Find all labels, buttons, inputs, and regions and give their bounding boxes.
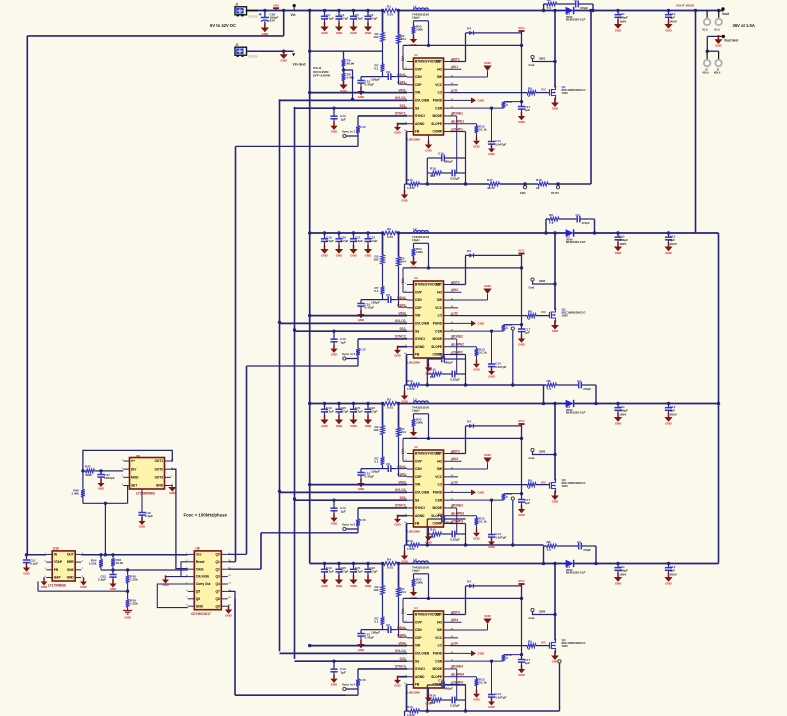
svg-text:D4: D4 <box>467 249 471 253</box>
svg-text:BST3: BST3 <box>452 449 460 453</box>
wire VIN pin to VIN bus ch2 <box>310 315 407 317</box>
resistor R4 sense filter ch3 <box>397 428 401 437</box>
svg-text:Vin: Vin <box>291 13 296 17</box>
svg-text:C8: C8 <box>386 462 390 466</box>
svg-text:4.7µF: 4.7µF <box>369 17 377 21</box>
resistor R5 UVLO top 90.9k <box>342 59 346 67</box>
svg-text:R16: R16 <box>430 528 436 532</box>
resistor R15 FB low 1.07k ch3 <box>407 544 410 546</box>
wire J2 ground <box>247 50 294 52</box>
svg-text:GND: GND <box>321 584 327 588</box>
svg-text:VIN: VIN <box>415 644 421 648</box>
capacitor C12 output ch3 <box>667 402 670 405</box>
connector lug Gnd B <box>718 51 720 59</box>
svg-text:680pF: 680pF <box>444 687 453 691</box>
svg-text:LM5122MH: LM5122MH <box>408 362 421 365</box>
wire VIN bus down <box>309 11 311 564</box>
svg-text:D4: D4 <box>467 26 471 30</box>
svg-text:PGND: PGND <box>433 98 443 102</box>
power VCC T-bar ch3 <box>521 424 523 438</box>
wire UVLO divider tap <box>344 70 353 99</box>
svg-text:AGND: AGND <box>415 345 425 349</box>
svg-text:GND: GND <box>321 253 327 257</box>
inductor L3 10uH ch3 <box>414 401 429 403</box>
resistor R1 current sense 0.01 ch1 <box>383 9 397 13</box>
svg-text:4.7µF: 4.7µF <box>355 410 363 414</box>
svg-text:LT1790BIS6: LT1790BIS6 <box>48 584 66 588</box>
svg-text:Sync in 1: Sync in 1 <box>342 129 356 133</box>
resistor R2 sense filter ch3 <box>381 426 385 435</box>
capacitor C17 VCC 1uF ch3 <box>521 438 523 499</box>
svg-text:GND: GND <box>358 95 364 99</box>
capacitor C18 comp 0.22uF ch3 <box>442 533 453 535</box>
svg-text:R4: R4 <box>387 557 391 561</box>
wire OVP feed ch1 <box>428 21 430 46</box>
svg-text:SW3: SW3 <box>539 450 546 454</box>
svg-text:4.7µF: 4.7µF <box>326 410 334 414</box>
svg-text:100k: 100k <box>416 28 423 32</box>
svg-text:GND: GND <box>280 59 286 63</box>
svg-text:0: 0 <box>506 326 508 330</box>
test point Vin Gnd <box>292 53 295 56</box>
transistor Q3 BSC160N10NS3 ch3 <box>549 482 551 488</box>
svg-text:102: 102 <box>373 35 378 39</box>
resistor R51 <box>127 570 129 576</box>
wire sync node ch4 <box>357 686 359 695</box>
svg-text:7.4: 7.4 <box>547 6 552 10</box>
wire BST pin ch4 <box>465 586 467 615</box>
resistor R8 snubber ch4 <box>543 546 545 564</box>
svg-text:4.7µF: 4.7µF <box>355 17 363 21</box>
svg-text:7.4: 7.4 <box>547 548 552 552</box>
svg-text:0.47µF: 0.47µF <box>365 475 375 479</box>
svg-text:CSP: CSP <box>415 83 422 87</box>
svg-text:Q2: Q2 <box>216 567 220 571</box>
resistor R4 sense filter ch1 <box>397 35 401 44</box>
wire sync phase 1 bus <box>235 146 237 561</box>
resistor R6 gate ch3 <box>527 483 536 487</box>
svg-text:SW1: SW1 <box>539 57 546 61</box>
wire CSN sense column ch1 <box>398 11 400 35</box>
svg-text:Q5: Q5 <box>196 590 200 594</box>
wire SYNC input ch2 <box>358 338 407 340</box>
svg-text:0.22µF: 0.22µF <box>450 538 460 542</box>
wire COMP pin ch1 <box>450 131 466 133</box>
svg-text:GND: GND <box>552 500 558 504</box>
svg-text:1.02k: 1.02k <box>130 578 138 582</box>
svg-text:0: 0 <box>506 495 508 499</box>
svg-text:0.01: 0.01 <box>387 406 393 410</box>
svg-text:10µH: 10µH <box>412 409 420 413</box>
diode D1 MURS320 ch1 <box>566 7 574 14</box>
capacitor C10 0.47uF ch1 <box>361 76 383 78</box>
wire SLOPE pin ch3 <box>450 515 477 517</box>
svg-text:470pF: 470pF <box>582 221 590 225</box>
svg-text:CSP2: CSP2 <box>397 304 406 308</box>
ground SW return pin ch4 <box>450 629 488 631</box>
wire VCC pin stub ch2 <box>450 307 458 309</box>
resistor R52 damping ch3 <box>414 413 429 415</box>
svg-text:GND: GND <box>425 148 431 152</box>
svg-text:CSP1: CSP1 <box>397 81 406 85</box>
capacitor C11 output ch3 <box>616 402 619 405</box>
svg-text:104: 104 <box>401 260 406 264</box>
wire SW node ch4 <box>554 564 556 641</box>
wire COMP pin ch3 <box>450 523 466 525</box>
svg-text:CSN2: CSN2 <box>397 296 406 300</box>
svg-text:7.4: 7.4 <box>549 221 554 225</box>
svg-text:R47: R47 <box>85 465 91 469</box>
resistor R52 damping ch2 <box>414 242 429 244</box>
resistor R8 snubber ch2 <box>545 219 547 233</box>
svg-text:L2: L2 <box>413 227 417 231</box>
capacitor C19 input bypass ch2 <box>323 231 326 234</box>
capacitor C18 comp 0.22uF ch2 <box>442 373 453 375</box>
svg-text:GND: GND <box>518 120 524 124</box>
svg-text:SS: SS <box>415 106 419 110</box>
svg-text:470pF: 470pF <box>583 548 591 552</box>
power VIN T-bar <box>275 8 277 10</box>
svg-text:L4: L4 <box>413 558 417 562</box>
diode D4 bootstrap ch1 <box>466 32 522 34</box>
svg-text:R6: R6 <box>528 479 532 483</box>
wire SYNC input ch4 <box>358 668 407 670</box>
diode D4 MURS320 ch4 <box>566 560 574 567</box>
resistor R4 sense filter ch4 <box>397 588 401 597</box>
capacitor C60 bulk 180uF <box>263 9 266 12</box>
svg-text:GND: GND <box>331 129 337 133</box>
svg-text:GND: GND <box>484 453 490 457</box>
svg-text:HO: HO <box>437 290 442 294</box>
svg-text:GND: GND <box>478 99 484 103</box>
svg-text:VCC: VCC <box>518 26 525 30</box>
wire UVLO bus <box>279 99 281 651</box>
capacitor C17 VCC 1uF ch2 <box>521 268 523 329</box>
resistor R45 sync series ch4 <box>356 679 360 686</box>
svg-text:FB: FB <box>415 522 420 526</box>
svg-text:0: 0 <box>506 656 508 660</box>
capacitor C16 comp 680pF ch1 <box>426 158 428 184</box>
capacitor C11 output ch2 <box>616 231 619 234</box>
svg-text:C8: C8 <box>386 623 390 627</box>
svg-text:R15: R15 <box>407 379 413 383</box>
wire SYNC input ch1 <box>358 115 407 117</box>
capacitor C14 0.047uF ch4 <box>491 694 493 696</box>
svg-text:GND: GND <box>336 31 342 35</box>
svg-text:1µF: 1µF <box>525 331 531 335</box>
svg-text:1µF: 1µF <box>341 341 347 345</box>
svg-text:R8: R8 <box>547 540 551 544</box>
resistor R15 FB low 1.07k ch2 <box>407 384 410 386</box>
wire OVP feed ch2 <box>428 243 430 268</box>
svg-text:R6: R6 <box>528 87 532 91</box>
svg-text:102: 102 <box>373 588 378 592</box>
resistor R7 sense filter ch2 <box>381 287 385 295</box>
svg-text:FB: FB <box>415 683 420 687</box>
svg-text:LO: LO <box>438 483 443 487</box>
svg-text:R16: R16 <box>430 167 436 171</box>
svg-text:GND: GND <box>358 648 364 652</box>
svg-text:GND: GND <box>365 253 371 257</box>
capacitor C12 output ch4 <box>667 562 670 565</box>
svg-text:CSN: CSN <box>415 628 422 632</box>
svg-text:VCC: VCC <box>541 482 546 485</box>
svg-text:HO1: HO1 <box>452 65 459 69</box>
ground FB divider ch2 <box>404 385 406 396</box>
svg-text:MODE2: MODE2 <box>452 335 464 339</box>
resistor R2 sense filter ch1 <box>381 33 385 42</box>
svg-text:LO1: LO1 <box>452 88 458 92</box>
svg-text:KLA: KLA <box>715 29 720 32</box>
test point Sync in 1 <box>343 134 346 137</box>
svg-text:845: 845 <box>430 701 435 705</box>
capacitor C13 soft-start 1uF ch2 <box>332 329 335 332</box>
svg-text:C16: C16 <box>438 152 444 156</box>
svg-text:0.01: 0.01 <box>387 566 393 570</box>
wire MODE pin ch4 <box>450 668 457 670</box>
ground counter tie <box>165 575 167 579</box>
wire CSN sense column ch4 <box>398 564 400 588</box>
capacitor C7 snubber 470pF ch1 <box>557 3 576 5</box>
wire sync phase 3 bus <box>260 533 262 569</box>
capacitor C12 output ch1 <box>667 9 670 12</box>
svg-text:Q3: Q3 <box>216 575 220 579</box>
test point OUT1 <box>556 186 559 189</box>
svg-text:Gnd: Gnd <box>529 456 535 460</box>
svg-text:GND: GND <box>488 705 494 709</box>
svg-text:0.47µF: 0.47µF <box>365 636 375 640</box>
svg-text:BST: BST <box>436 452 442 456</box>
wire FB row ch3 <box>427 544 543 546</box>
transistor Q4 BSC160N10NS3 ch4 <box>549 642 551 648</box>
svg-text:OVP: OVP <box>415 620 423 624</box>
ground exposed pad ch4 <box>428 688 430 698</box>
wire SS pin to SS bus ch3 <box>295 499 408 501</box>
svg-text:R15: R15 <box>407 539 413 543</box>
resistor R16 comp ch1 <box>432 171 442 175</box>
ground SW return pin ch2 <box>450 299 488 301</box>
svg-text:GND: GND <box>394 684 400 688</box>
capacitor C20 input bypass ch2 <box>337 231 340 234</box>
wire FB pin to divider ch1 <box>406 131 409 133</box>
svg-text:C8: C8 <box>386 293 390 297</box>
svg-text:1727010: 1727010 <box>248 56 258 59</box>
svg-text:160V: 160V <box>619 242 627 246</box>
wire sync node ch1 <box>357 133 359 146</box>
capacitor C10 0.47uF ch4 <box>361 629 383 631</box>
diode D4 bootstrap ch4 <box>466 585 522 587</box>
svg-text:R2: R2 <box>387 227 391 231</box>
capacitor C16 comp 680pF ch4 <box>426 685 428 711</box>
svg-text:PR: PR <box>54 568 59 572</box>
wire oscillator feedback loop <box>83 450 172 471</box>
svg-text:GND: GND <box>615 28 621 32</box>
test point SW ch4 <box>531 608 534 611</box>
svg-text:BST: BST <box>436 613 442 617</box>
wire oscillator supply drop <box>104 503 106 555</box>
capacitor C17 VCC 1uF ch1 <box>521 45 523 106</box>
svg-text:R6: R6 <box>528 310 532 314</box>
resistor R13 current sense filter ch4 <box>450 660 504 662</box>
resistor R3 current sense 0.01 ch3 <box>383 402 397 406</box>
svg-text:CSP: CSP <box>415 636 422 640</box>
svg-text:Carry Out: Carry Out <box>196 582 212 586</box>
ground PGND pin ch1 <box>450 99 471 101</box>
svg-text:CSP: CSP <box>415 475 422 479</box>
svg-text:SLOPE3: SLOPE3 <box>452 512 465 516</box>
wire VIN pin to VIN bus ch3 <box>310 484 407 486</box>
svg-text:SLOPE: SLOPE <box>431 122 442 126</box>
svg-text:1µF: 1µF <box>341 671 347 675</box>
wire BST pin ch3 <box>465 426 467 454</box>
svg-text:4.7µF: 4.7µF <box>340 239 348 243</box>
svg-text:C15: C15 <box>360 678 366 682</box>
svg-text:GND: GND <box>336 424 342 428</box>
svg-text:Gnd: Gnd <box>529 63 535 67</box>
svg-text:4.7µF: 4.7µF <box>326 239 334 243</box>
capacitor C5 input bypass ch1 <box>352 9 355 12</box>
svg-text:C7: C7 <box>577 540 581 544</box>
svg-text:R3: R3 <box>387 397 391 401</box>
svg-text:MURS320-CLP: MURS320-CLP <box>566 240 586 244</box>
wire SS pin to SS bus ch1 <box>295 107 408 109</box>
svg-text:GND: GND <box>98 487 104 491</box>
svg-text:4.7µF: 4.7µF <box>340 17 348 21</box>
capacitor C16 comp 680pF ch3 <box>426 519 428 545</box>
wire FB tap ch2 <box>512 330 514 385</box>
svg-text:MURS320-CLP: MURS320-CLP <box>566 410 586 414</box>
wire reference feedback <box>38 590 128 592</box>
power VCC T-bar ch1 <box>521 31 523 45</box>
capacitor C42 input bypass ch4 <box>323 562 326 565</box>
resistor R7 sense filter ch1 <box>381 64 385 72</box>
svg-text:104: 104 <box>401 430 406 434</box>
svg-text:GND: GND <box>473 697 479 701</box>
svg-text:GND: GND <box>67 576 75 580</box>
capacitor C7 snubber 470pF ch2 <box>559 218 577 220</box>
svg-text:OFF=5.8VIN: OFF=5.8VIN <box>313 74 330 78</box>
svg-text:AGND: AGND <box>415 514 425 518</box>
svg-text:2: 2 <box>528 647 530 651</box>
svg-text:VIN: VIN <box>415 91 421 95</box>
wire LO gate drive ch1 <box>450 92 527 94</box>
wire FB pin to divider ch4 <box>406 684 409 686</box>
resistor R6 gate ch1 <box>527 91 536 95</box>
resistor R47 4.22k <box>83 470 86 472</box>
svg-text:CSP4: CSP4 <box>397 634 406 638</box>
ground AGND pin ch1 <box>398 123 408 125</box>
svg-text:VIN: VIN <box>273 3 279 7</box>
test point Vout <box>721 7 724 10</box>
svg-text:KBLA: KBLA <box>703 72 710 75</box>
svg-text:UVLO/EN: UVLO/EN <box>415 651 430 655</box>
test point Sync in 4 <box>343 687 346 690</box>
svg-text:5.1: 5.1 <box>374 289 379 293</box>
svg-text:D4: D4 <box>467 579 471 583</box>
svg-text:VCC: VCC <box>435 475 442 479</box>
svg-text:100k: 100k <box>416 581 423 585</box>
svg-text:GND: GND <box>518 342 524 346</box>
resistor R15 FB low 1.07k ch1 <box>407 183 410 185</box>
svg-text:BST4: BST4 <box>452 610 460 614</box>
svg-text:GND: GND <box>169 491 175 495</box>
svg-text:432k: 432k <box>85 473 92 477</box>
svg-text:160V: 160V <box>619 412 627 416</box>
svg-text:1µF: 1µF <box>525 108 531 112</box>
svg-text:LO: LO <box>438 91 443 95</box>
svg-text:845: 845 <box>430 174 435 178</box>
wire sync bus link ch4 <box>235 694 358 696</box>
svg-text:GND: GND <box>350 424 356 428</box>
svg-text:680pF: 680pF <box>444 521 453 525</box>
wire SS pin to SS bus ch2 <box>295 330 408 332</box>
svg-text:FB: FB <box>415 353 420 357</box>
svg-text:Q6: Q6 <box>196 597 200 601</box>
capacitor C13 soft-start 1uF ch4 <box>332 659 335 662</box>
svg-text:10.0k: 10.0k <box>116 561 124 565</box>
svg-text:160V: 160V <box>619 19 627 23</box>
svg-text:SET: SET <box>131 484 137 488</box>
wire SW node ch3 <box>554 404 556 481</box>
svg-text:48.7k: 48.7k <box>487 186 495 190</box>
svg-text:GND: GND <box>473 367 479 371</box>
svg-text:SS: SS <box>415 329 419 333</box>
svg-text:102: 102 <box>373 258 378 262</box>
svg-text:GND: GND <box>340 89 346 93</box>
svg-text:200V: 200V <box>670 572 678 576</box>
wire sync node ch2 <box>357 356 359 367</box>
resistor R13 current sense filter ch3 <box>450 499 504 501</box>
svg-text:GND: GND <box>225 613 231 617</box>
svg-text:Vcc: Vcc <box>196 553 202 557</box>
svg-text:L3: L3 <box>413 398 417 402</box>
svg-text:0.22µF: 0.22µF <box>450 704 460 708</box>
ground PGND pin ch2 <box>450 322 471 324</box>
svg-text:VCC: VCC <box>518 249 525 253</box>
svg-text:HO: HO <box>437 620 442 624</box>
svg-text:OUT3: OUT3 <box>154 475 163 479</box>
svg-text:GND: GND <box>196 604 204 608</box>
power VCC T-bar ch4 <box>521 584 523 598</box>
resistor R12 slope ch2 <box>476 347 478 349</box>
capacitor C3 input bypass ch1 <box>323 9 326 12</box>
svg-text:SLOPE1: SLOPE1 <box>452 120 465 124</box>
svg-text:MODE1: MODE1 <box>452 112 464 116</box>
svg-text:OUT2: OUT2 <box>154 467 163 471</box>
test point SW ch2 <box>531 278 534 281</box>
svg-text:R18: R18 <box>536 178 542 182</box>
svg-text:SS: SS <box>415 659 419 663</box>
capacitor C33 input bypass ch3 <box>366 402 369 405</box>
svg-text:102: 102 <box>373 428 378 432</box>
resistor R13 current sense filter ch1 <box>450 107 504 109</box>
capacitor C31 input bypass ch3 <box>337 402 340 405</box>
wire output rail channel 4 <box>574 563 719 565</box>
svg-text:2: 2 <box>528 94 530 98</box>
wire CSP sense column ch1 <box>382 11 384 33</box>
svg-text:SW: SW <box>437 467 442 471</box>
wire VIN rail channel 3 <box>310 403 567 405</box>
svg-text:LM5122MH: LM5122MH <box>408 692 421 695</box>
svg-text:VCC: VCC <box>435 83 442 87</box>
svg-text:200V: 200V <box>670 19 678 23</box>
wire CSP sense column ch3 <box>382 404 384 426</box>
wire VIN pin to VIN bus ch1 <box>310 92 407 94</box>
svg-text:GND: GND <box>715 44 721 48</box>
svg-text:J1: J1 <box>235 3 239 7</box>
svg-text:CSN: CSN <box>415 467 422 471</box>
svg-text:R16: R16 <box>430 368 436 372</box>
